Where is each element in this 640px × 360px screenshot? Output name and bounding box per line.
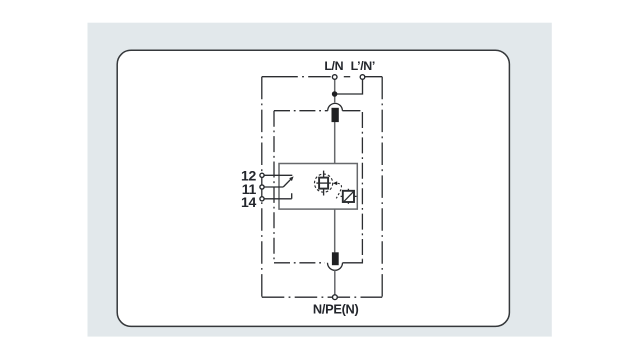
wire contact 11 (common)	[264, 186, 283, 188]
inner monitoring boundary bottom-left segment	[274, 262, 325, 264]
monitoring module box	[279, 164, 357, 210]
disconnector F2 hop arc bottom	[328, 263, 343, 271]
actuation arrow head	[333, 181, 337, 185]
outer enclosure boundary bottom edge	[262, 296, 382, 298]
inner monitoring boundary right edge	[361, 112, 363, 259]
wire monitoring box to disconnector F2	[334, 209, 336, 252]
thermal monitoring dashed circle	[315, 174, 333, 192]
outer enclosure boundary top-right segment	[365, 76, 382, 78]
wire junction to L'/N'	[335, 79, 363, 94]
svg-text:14: 14	[241, 194, 256, 210]
outer enclosure boundary dash between L/N and L'/N'	[344, 76, 350, 78]
terminal 12	[260, 173, 264, 177]
inner boundary top-right solid segment	[342, 110, 360, 112]
svg-text:L’/N’: L’/N’	[351, 59, 375, 73]
actuation dashed curve	[336, 183, 341, 198]
indicator square ticks	[341, 189, 357, 204]
switch arm arrow tip	[289, 176, 293, 181]
wire disconnector F1 to monitoring box	[334, 122, 336, 163]
inner monitoring boundary left edge	[273, 111, 275, 263]
varistor RV1 body	[319, 178, 328, 189]
varistor RV1 bottom lead	[323, 189, 325, 196]
terminal L/N	[332, 75, 337, 80]
svg-text:L/N: L/N	[324, 59, 343, 73]
disconnector F1 body	[332, 108, 339, 122]
wire disconnector F2 to N/PE terminal	[334, 270, 336, 294]
outer enclosure boundary top-left segment	[262, 76, 333, 78]
terminal L'/N'	[360, 75, 365, 80]
inner boundary bottom-right solid segment	[343, 259, 363, 263]
varistor RV1 mid electrode line	[316, 182, 330, 184]
terminal 11	[260, 185, 264, 189]
varistor RV1 top lead	[323, 171, 325, 178]
diagram frame	[117, 50, 509, 326]
terminal 14	[260, 197, 264, 201]
terminal N/PE(N)	[333, 295, 338, 300]
svg-text:N/PE(N): N/PE(N)	[313, 301, 359, 316]
disconnector F2 body	[332, 252, 339, 265]
disconnector F1 hop arc top	[328, 103, 343, 110]
inner monitoring boundary top-left segment	[274, 110, 328, 112]
wire contact 14 with open contact tick	[264, 193, 292, 199]
junction node	[332, 91, 338, 97]
switch arm 11-12	[283, 178, 292, 187]
wire contact 12	[264, 174, 292, 176]
indicator square diagonal	[343, 190, 355, 202]
wire L/N down to disconnector	[334, 79, 336, 102]
indicator square body	[343, 191, 354, 202]
outer enclosure boundary right edge	[381, 77, 383, 298]
outer enclosure boundary left edge	[261, 77, 263, 298]
grey panel background	[88, 23, 552, 337]
